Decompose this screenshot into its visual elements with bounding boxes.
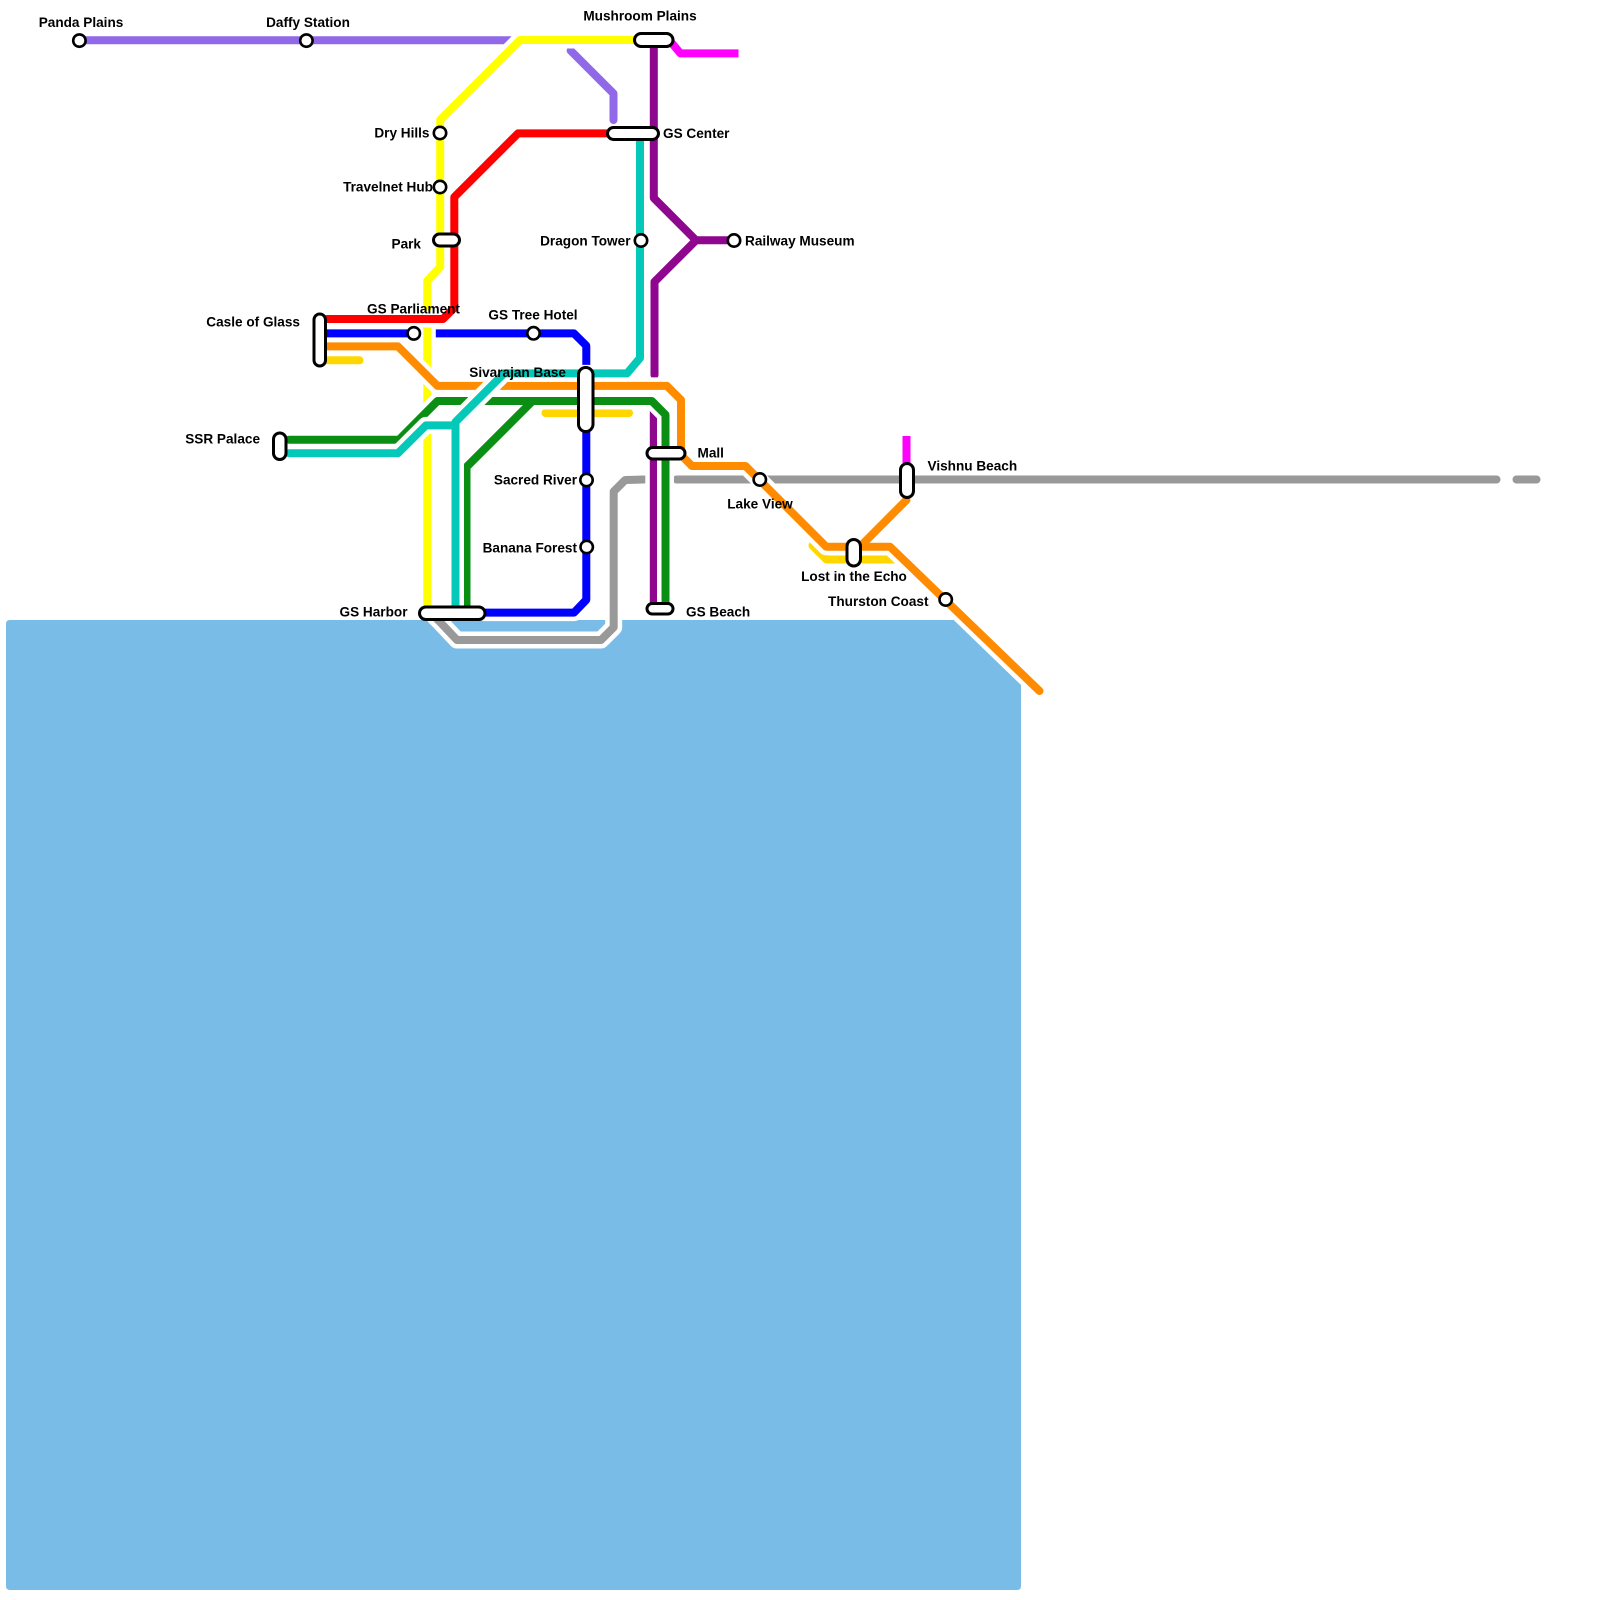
svg-text:Panda Plains: Panda Plains — [39, 15, 124, 30]
svg-text:Daffy Station: Daffy Station — [266, 15, 350, 30]
svg-text:Sacred River: Sacred River — [494, 473, 578, 488]
gray line casing — [435, 480, 1537, 641]
purple line — [654, 46, 734, 604]
purple line casing — [654, 46, 734, 604]
teal line casing — [289, 141, 640, 606]
blue line — [327, 333, 586, 612]
magenta line casing — [670, 41, 907, 463]
yellow line casing — [427, 40, 633, 606]
station circle GS Tree Hotel — [527, 327, 539, 339]
station circle Banana Forest — [581, 541, 593, 553]
station circle Dragon Tower — [635, 234, 647, 246]
station pill GS Beach — [647, 604, 673, 615]
station pill GS Center — [608, 128, 659, 140]
light purple line — [79, 40, 613, 120]
station circle Dry Hills — [434, 127, 446, 139]
station pill Vishnu Beach — [901, 464, 914, 498]
station circle GS Parliament — [408, 327, 420, 339]
water — [6, 620, 1021, 1590]
svg-text:Thurston Coast: Thurston Coast — [828, 594, 929, 609]
svg-text:Dry Hills: Dry Hills — [374, 126, 429, 141]
svg-text:GS Center: GS Center — [663, 126, 730, 141]
yellow line — [427, 40, 633, 606]
teal line — [289, 141, 640, 606]
svg-text:Dragon Tower: Dragon Tower — [540, 234, 631, 249]
station pill SSR Palace — [274, 433, 287, 460]
svg-text:Sivarajan Base: Sivarajan Base — [469, 365, 566, 380]
orange line — [327, 346, 1040, 691]
svg-text:Park: Park — [392, 237, 422, 252]
gray line — [435, 480, 1537, 641]
station pill Lost in the Echo — [847, 540, 861, 567]
gold line — [327, 360, 896, 559]
red line — [327, 133, 606, 319]
svg-text:GS Tree Hotel: GS Tree Hotel — [488, 308, 577, 323]
green line casing — [289, 401, 666, 606]
station pill GS Harbor — [420, 607, 486, 620]
svg-text:Travelnet Hub: Travelnet Hub — [343, 180, 433, 195]
svg-text:GS Harbor: GS Harbor — [340, 605, 409, 620]
station pill Casle of Glass — [314, 314, 326, 366]
orange line casing — [327, 346, 1040, 691]
magenta line — [670, 41, 907, 463]
svg-text:Railway Museum: Railway Museum — [745, 234, 855, 249]
station circle Railway Museum — [728, 234, 740, 246]
red line casing — [327, 133, 606, 319]
station circle Daffy Station — [300, 34, 312, 46]
svg-text:Lost in the Echo: Lost in the Echo — [801, 569, 907, 584]
svg-text:Mushroom Plains: Mushroom Plains — [583, 9, 696, 24]
station circle Lake View — [754, 473, 766, 485]
station circle Travelnet Hub — [434, 181, 446, 193]
svg-text:GS Parliament: GS Parliament — [367, 302, 460, 317]
light purple line casing — [79, 40, 613, 120]
svg-text:Lake View: Lake View — [727, 497, 793, 512]
gold line casing — [327, 360, 896, 559]
station circle Panda Plains — [73, 34, 85, 46]
svg-text:Banana Forest: Banana Forest — [483, 541, 578, 556]
svg-text:SSR Palace: SSR Palace — [185, 432, 260, 447]
svg-text:Casle of Glass: Casle of Glass — [206, 315, 300, 330]
blue line casing — [327, 333, 586, 612]
station pill Sivarajan Base — [579, 368, 594, 432]
station circle Sacred River — [580, 474, 592, 486]
svg-text:Mall: Mall — [698, 446, 724, 461]
green line — [289, 401, 666, 606]
station circle Thurston Coast — [940, 593, 952, 605]
station pill Park — [434, 234, 460, 246]
svg-text:GS Beach: GS Beach — [686, 605, 750, 620]
station pill Mushroom Plains — [635, 34, 674, 47]
svg-text:Vishnu Beach: Vishnu Beach — [928, 459, 1018, 474]
station pill Mall — [647, 448, 685, 460]
